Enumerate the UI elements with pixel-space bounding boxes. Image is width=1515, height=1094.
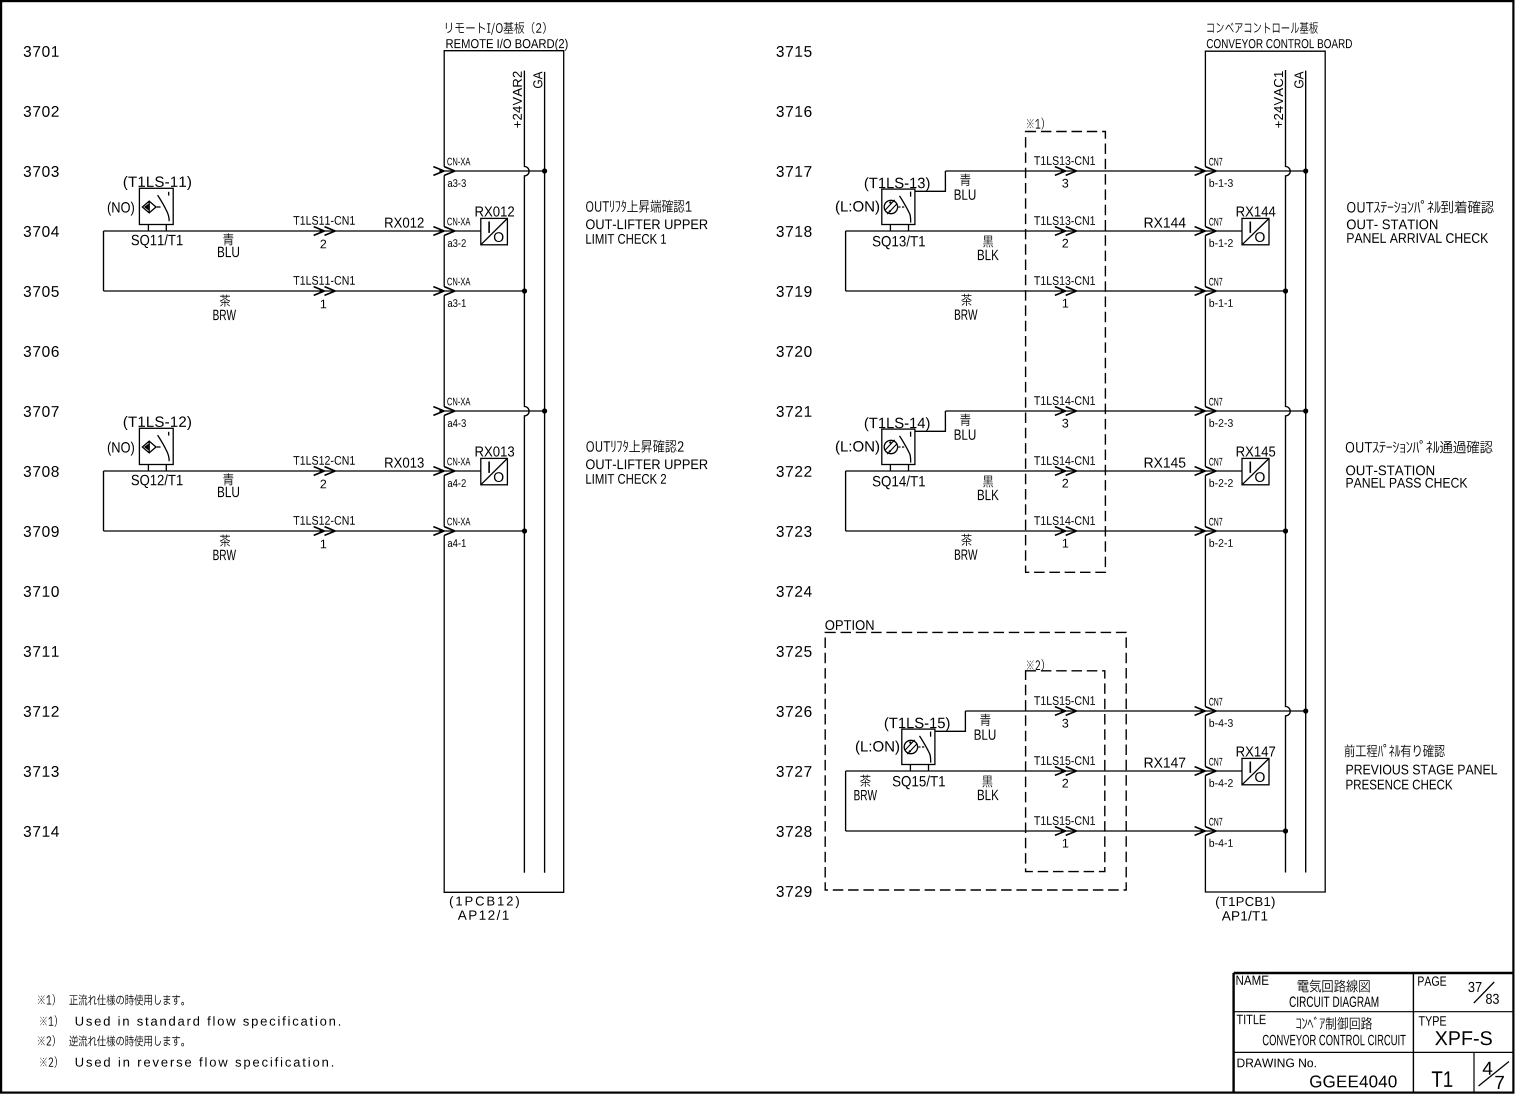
wire color kanji brown pin1 SQ13/T1 (961, 294, 971, 306)
harness label RX013 on wire (385, 458, 424, 468)
wire color kanji brown (pin1 of SQ12/T1) (220, 535, 230, 547)
line number 3718 (777, 226, 812, 237)
connector name T1LS-11-CN1 (pin1) (293, 276, 354, 285)
pin label a3-2 (448, 239, 466, 247)
wire color kanji brown pin1 SQ14/T1 (961, 534, 971, 546)
board edge connector CN7 b-4-1 (1195, 827, 1217, 836)
label (L:ON) of SQ13/T1 (836, 201, 879, 215)
connector name T1LS-15-CN1 (pin3) (1034, 696, 1095, 705)
left board edge connector gaps (white) (443, 167, 445, 536)
I/O point RX145 symbol box (1242, 458, 1269, 484)
right board title Japanese: conveyor control board (1207, 22, 1318, 34)
description JP circuit 2: OUT lifter upper check 2 (586, 440, 683, 453)
I/O box letter O (RX145) (1255, 472, 1265, 482)
right board title English (1207, 39, 1352, 48)
connector label CN7 (b-1-3) (1209, 158, 1222, 166)
line number 3704 (24, 226, 59, 237)
line number 3728 (777, 826, 812, 837)
I/O point RX013 symbol box (481, 458, 508, 484)
wire SQ14/T1 pin3 BLU to board (row 3721) (945, 410, 1205, 412)
dashed box note 2 (reverse flow connectors) (1026, 671, 1105, 872)
page fraction slash (1474, 982, 1494, 1003)
wire inside board a3-2 to I/O RX012 (444, 230, 481, 232)
line number 3702 (24, 106, 59, 117)
wire color BRW pin1 SQ14/T1 (955, 550, 978, 560)
right board AP1/T1 outline (1205, 51, 1325, 892)
wire SQ15/T1 pin2 BLK to board (846, 770, 1206, 772)
reference designator SQ12/T1 (132, 474, 183, 488)
title block label PAGE (1418, 976, 1446, 986)
wire color BRW (pin1 of SQ11/T1) (213, 310, 236, 320)
I/O box letter O (RX144) (1255, 232, 1265, 242)
description EN right 1 line 1 (1347, 219, 1437, 229)
pin number 3 of T1LS-15-CN1 (1062, 719, 1068, 728)
connector label CN-XA (a3-2) (447, 218, 470, 226)
wire inside board b-1-1 to +24VAC1 (1205, 290, 1285, 292)
I/O box letter I (RX147) (1250, 762, 1252, 773)
pin label b-2-1 (1210, 539, 1233, 547)
description EN right 2 line 2 (1347, 478, 1468, 488)
description EN circuit 1 line 1 (586, 219, 708, 229)
pin label a3-3 (448, 179, 466, 187)
line number 3723 (777, 526, 812, 537)
I/O box letter I (RX144) (1250, 222, 1252, 233)
pin number 2 of T1LS-11-CN1 (321, 240, 327, 249)
net +24VAC1 bus line (right board) with hops (1286, 70, 1291, 873)
left board title Japanese: remote I/O board(2) (446, 22, 546, 35)
wire SQ12/T1 pin2 BLU to board (row 3708) (104, 470, 445, 472)
line number 3708 (24, 466, 59, 477)
board edge connector CN-XA a4-1 (433, 527, 455, 536)
board reference (1PCB12) (450, 896, 519, 908)
title block CIRCUIT DIAGRAM (1290, 996, 1379, 1007)
title block divider row2/row3 (1234, 1051, 1514, 1053)
description EN circuit 2 line 2 (586, 474, 666, 484)
I/O point label RX012 (476, 206, 514, 216)
junction dot b-4-3 on GA (1303, 708, 1308, 713)
note 2 text EN (76, 1057, 333, 1069)
net label GA left (rotated) (533, 72, 542, 89)
net +24VAR2 bus line (left board) with hops (524, 71, 529, 873)
pin label b-2-2 (1210, 479, 1233, 487)
connector T1LS-15-CN1 pin2 chevrons (1055, 767, 1077, 776)
net label +24VAC1 (rotated) (1274, 71, 1283, 127)
left board title English (446, 39, 567, 51)
note 2 text JP: used in reverse flow specification (69, 1035, 184, 1046)
reference designator SQ15/T1 (893, 776, 945, 790)
line number 3727 (777, 766, 812, 777)
wire inside board a4-3 to GA (444, 410, 544, 412)
reference designator SQ13/T1 (873, 236, 925, 250)
pin number 2 of T1LS-14-CN1 (1063, 479, 1069, 488)
wire color kanji brown pin1 SQ15/T1 (860, 775, 870, 787)
I/O point label RX147 (1237, 747, 1275, 757)
wire inside board b-1-2 to I/O RX144 (1205, 230, 1242, 232)
pin number 2 of T1LS-15-CN1 (1063, 779, 1069, 788)
wire color BLU (pin2 of SQ12/T1) (218, 487, 239, 497)
title block row3 sub divider (1473, 1052, 1475, 1092)
connector name T1LS-13-CN1 (pin3) (1034, 156, 1095, 165)
sheet fraction slash (1479, 1062, 1510, 1087)
reference designator SQ11/T1 (132, 234, 183, 248)
note 1 marker JP (38, 994, 55, 1005)
connector name T1LS-13-CN1 (pin1) (1034, 276, 1095, 285)
board edge connector CN-XA a4-2 (433, 467, 455, 476)
connector label CN7 (b-4-3) (1209, 698, 1222, 706)
board edge connector CN7 b-4-3 (1195, 707, 1217, 716)
line number 3713 (24, 766, 59, 777)
title block JP name: electric circuit diagram (1298, 980, 1370, 993)
I/O box letter O (RX012) (494, 232, 504, 242)
pin number 3 of T1LS-13-CN1 (1062, 179, 1068, 188)
wire SQ12/T1 left vertical (103, 471, 105, 531)
note marker 1 above dashed box (1027, 118, 1044, 130)
I/O point label RX145 (1237, 447, 1276, 457)
wire SQ12/T1 pin1 BRW to board (row 3709) (104, 530, 445, 532)
connector name T1LS-14-CN1 (pin3) (1034, 396, 1095, 405)
wire SQ15/T1 pin3 BLU to board (row 3726) (965, 710, 1205, 712)
board edge connector CN-XA a3-2 (433, 227, 455, 236)
title block CONVEYOR CONTROL CIRCUIT (1263, 1035, 1406, 1046)
line number 3710 (24, 586, 59, 597)
board edge connector CN-XA a4-3 (433, 407, 455, 416)
I/O point RX012 symbol box (481, 218, 508, 244)
line number 3701 (24, 46, 59, 57)
connector T1LS-15-CN1 pin1 chevrons (1055, 827, 1077, 836)
line number 3725 (777, 646, 812, 657)
connector label CN-XA (a4-2) (447, 458, 470, 466)
connector label CN7 (b-2-1) (1209, 518, 1222, 526)
net GA bus line (left board) (544, 72, 546, 873)
limit switch SQ14/T1 (T1LS-14) sensor symbol box (882, 429, 915, 471)
board edge connector CN7 b-2-3 (1195, 407, 1217, 416)
limit switch SQ12/T1 (T1LS-12) proximity symbol box (139, 428, 173, 471)
harness label RX145 on wire (1145, 458, 1186, 468)
junction dot a3-1 on +24VAR2 (522, 288, 527, 293)
description EN right 3 line 1 (1347, 765, 1498, 775)
wire SQ14/T1 left vertical (845, 471, 847, 531)
I/O point label RX144 (1237, 207, 1276, 217)
line number 3721 (777, 406, 812, 417)
note 1 text EN (76, 1016, 340, 1028)
connector label CN-XA (a4-1) (447, 518, 470, 526)
connector name T1LS-14-CN1 (pin2) (1034, 456, 1095, 465)
wire color kanji blue pin3 SQ15/T1 (980, 714, 990, 726)
junction dot b-1-1 on +24VAC1 (1283, 288, 1288, 293)
wire SQ15/T1 left vertical (845, 771, 847, 831)
connector label CN-XA (a3-1) (447, 278, 470, 286)
line number 3719 (777, 286, 812, 297)
wire SQ11/T1 left vertical (103, 231, 105, 291)
board edge connector CN7 b-4-2 (1195, 767, 1217, 776)
board reference AP12/1 (458, 910, 509, 920)
connector name T1LS-15-CN1 (pin2) (1034, 756, 1095, 765)
description JP right 1: OUT station panel arrival check (1347, 200, 1494, 213)
connector T1LS-11-CN1 pin2 chevrons (314, 227, 336, 236)
note 1 text JP: used in standard flow specification (69, 994, 184, 1005)
note 2 marker EN line (40, 1056, 57, 1067)
pin label a3-1 (448, 299, 466, 307)
connector T1LS-13-CN1 pin2 chevrons (1055, 227, 1077, 236)
wire inside board a4-1 to +24VAR2 (444, 530, 524, 532)
pin label b-1-3 (1210, 179, 1233, 187)
label OPTION (825, 620, 873, 630)
connector T1LS-12-CN1 pin2 chevrons (314, 467, 336, 476)
title block label TYPE (1419, 1016, 1446, 1025)
junction dot a3-3 on GA (542, 168, 547, 173)
wire inside board b-4-2 to I/O RX147 (1205, 770, 1242, 772)
connector T1LS-15-CN1 pin3 chevrons (1055, 707, 1077, 716)
pin number 1 of T1LS-15-CN1 (1063, 839, 1068, 848)
description EN circuit 2 line 1 (586, 459, 708, 469)
wire inside board b-2-1 to +24VAC1 (1205, 530, 1285, 532)
harness label RX012 on wire (385, 218, 423, 228)
wire inside board b-2-2 to I/O RX145 (1205, 470, 1242, 472)
wire color BRW pin1 SQ15/T1 (854, 790, 877, 800)
board edge connector CN-XA a3-1 (433, 287, 455, 296)
connector label CN7 (b-2-2) (1209, 458, 1222, 466)
wire SQ15/T1 BLU jog from box to pin3 row (935, 711, 966, 731)
title block outline (thick) (1234, 973, 1513, 1092)
wire inside board b-4-3 to GA (1205, 710, 1305, 712)
net GA bus line (right board) (1305, 71, 1307, 873)
wire color kanji blue pin3 SQ13/T1 (960, 174, 970, 186)
board edge connector CN7 b-1-2 (1195, 227, 1217, 236)
wire SQ13/T1 pin2 BLK to board (846, 230, 1206, 232)
connector T1LS-14-CN1 pin3 chevrons (1055, 407, 1077, 416)
label (T1LS-15) (885, 717, 950, 731)
board edge connector CN7 b-2-1 (1195, 527, 1217, 536)
pin label b-4-3 (1210, 719, 1233, 727)
I/O box letter O (RX147) (1255, 772, 1265, 782)
title block label NAME (1237, 976, 1269, 985)
wire inside board a3-1 to +24VAR2 (444, 290, 524, 292)
I/O point RX147 symbol box (1242, 758, 1269, 784)
title block label TITLE (1237, 1015, 1266, 1024)
line number 3724 (777, 586, 812, 597)
wire color kanji brown (pin1 of SQ11/T1) (220, 295, 230, 307)
label (T1LS-14) (865, 417, 930, 431)
reference designator SQ14/T1 (873, 476, 925, 490)
label (NO) contact type of SQ12/T1 (108, 442, 134, 456)
wire color BLU (pin2 of SQ11/T1) (218, 247, 239, 257)
wire inside board a4-2 to I/O RX013 (444, 470, 481, 472)
limit switch SQ11/T1 (T1LS-11) proximity symbol box (139, 188, 173, 231)
pin label a4-3 (448, 419, 466, 427)
wire color BRW (pin1 of SQ12/T1) (213, 550, 236, 560)
wire color kanji black pin2 SQ13/T1 (983, 236, 993, 248)
wire SQ13/T1 pin1 BRW to board (846, 290, 1206, 292)
wire inside board b-1-3 to GA (1205, 170, 1305, 172)
title block sheet T1 (1432, 1071, 1453, 1087)
board edge connector CN7 b-2-2 (1195, 467, 1217, 476)
wire color BRW pin1 SQ13/T1 (955, 310, 978, 320)
wire color kanji blue (pin2 of SQ12/T1) (223, 473, 233, 485)
pin number 2 of T1LS-13-CN1 (1063, 239, 1069, 248)
wire color BLK pin2 SQ15/T1 (978, 790, 999, 800)
I/O box letter I (RX145) (1250, 462, 1252, 473)
connector label CN7 (b-1-2) (1209, 218, 1222, 226)
I/O box letter O (RX013) (494, 472, 504, 482)
line number 3712 (24, 706, 59, 717)
junction dot b-1-3 on GA (1303, 168, 1308, 173)
wire SQ13/T1 pin3 BLU to board (row 3717) (945, 170, 1205, 172)
page fraction numerator 37 (1468, 982, 1481, 992)
harness label RX144 on wire (1145, 218, 1186, 228)
line number 3715 (777, 46, 812, 57)
description EN circuit 1 line 2 (586, 234, 666, 244)
title block divider row1/row2 (1234, 1011, 1514, 1013)
line number 3714 (24, 826, 59, 837)
line number 3722 (777, 466, 812, 477)
right board edge connector gaps (white) (1204, 167, 1206, 836)
pin number 3 of T1LS-14-CN1 (1062, 419, 1068, 428)
line number 3707 (24, 406, 59, 417)
label (L:ON) of SQ15/T1 (856, 741, 899, 755)
pin label b-4-1 (1210, 839, 1233, 847)
I/O point label RX013 (476, 446, 514, 456)
wire color BLK pin2 SQ14/T1 (978, 490, 999, 500)
title block drawing number GGEE4040 (1310, 1075, 1397, 1087)
junction dot b-2-3 on GA (1303, 408, 1308, 413)
description JP right 3: previous stage panel presence check (1345, 744, 1445, 757)
I/O point RX144 symbol box (1242, 218, 1269, 244)
wire color kanji blue pin3 SQ14/T1 (960, 414, 970, 426)
connector label CN7 (b-2-3) (1209, 398, 1222, 406)
note 1 marker EN line (40, 1015, 57, 1026)
junction dot a4-3 on GA (542, 408, 547, 413)
line number 3716 (777, 106, 812, 117)
line number 3706 (24, 346, 59, 357)
pin number 1 of T1LS-14-CN1 (1063, 539, 1068, 548)
wire SQ11/T1 pin2 BLU to board (row 3704) (104, 230, 445, 232)
wire color BLU pin3 SQ15/T1 (975, 730, 996, 740)
wire SQ14/T1 pin1 BRW to board (846, 530, 1206, 532)
wire inside board a3-3 to GA (444, 170, 544, 172)
connector T1LS-14-CN1 pin2 chevrons (1055, 467, 1077, 476)
pin label b-1-2 (1210, 239, 1233, 247)
wire color BLU pin3 SQ13/T1 (955, 190, 976, 200)
connector label CN-XA (a4-3) (447, 398, 470, 406)
label (T1LS-13) (865, 177, 930, 191)
line number 3720 (777, 346, 812, 357)
connector label CN7 (b-4-2) (1209, 758, 1222, 766)
connector name T1LS-14-CN1 (pin1) (1034, 516, 1095, 525)
description EN right 1 line 2 (1347, 233, 1488, 243)
connector T1LS-12-CN1 pin1 chevrons (314, 527, 336, 536)
wire color kanji black pin2 SQ15/T1 (982, 776, 992, 788)
line number 3709 (24, 526, 59, 537)
label (L:ON) of SQ14/T1 (836, 441, 879, 455)
limit switch SQ13/T1 (T1LS-13) sensor symbol box (882, 189, 915, 231)
title block vertical divider (1412, 973, 1414, 1092)
connector T1LS-13-CN1 pin3 chevrons (1055, 167, 1077, 176)
connector T1LS-13-CN1 pin1 chevrons (1055, 287, 1077, 296)
line number 3726 (777, 706, 812, 717)
board edge connector CN7 b-1-1 (1195, 287, 1217, 296)
wire color kanji blue (pin2 of SQ11/T1) (223, 233, 233, 245)
connector name T1LS-12-CN1 (pin1) (293, 516, 354, 525)
junction dot a4-1 on +24VAR2 (522, 528, 527, 533)
board edge connector CN-XA a3-3 (433, 167, 455, 176)
connector name T1LS-15-CN1 (pin1) (1034, 816, 1095, 825)
connector name T1LS-11-CN1 (pin2) (293, 216, 354, 225)
junction dot b-2-1 on +24VAC1 (1283, 528, 1288, 533)
description JP right 2: OUT station panel pass check (1346, 440, 1493, 453)
connector label CN7 (b-1-1) (1209, 278, 1222, 286)
connector name T1LS-12-CN1 (pin2) (293, 456, 354, 465)
board reference AP1/T1 (1222, 911, 1268, 921)
wire SQ14/T1 pin2 BLK to board (846, 470, 1206, 472)
connector label CN7 (b-4-1) (1209, 818, 1222, 826)
wire SQ11/T1 pin1 BRW to board (row 3705) (104, 290, 445, 292)
description EN right 2 line 1 (1346, 465, 1434, 475)
page fraction denominator 83 (1486, 994, 1499, 1004)
line number 3711 (24, 646, 59, 657)
title block type XPF-S (1435, 1031, 1492, 1045)
wire SQ13/T1 BLU jog from box to pin3 row (915, 171, 946, 191)
line number 3703 (24, 166, 59, 177)
label (T1LS-12) (124, 416, 191, 430)
junction dot b-4-1 on +24VAC1 (1283, 828, 1288, 833)
description JP circuit 1: OUT lifter upper-end check 1 (586, 200, 691, 213)
dashed box note 1 (standard flow connectors) (1026, 132, 1106, 573)
pin number 1 of T1LS-11-CN1 (321, 300, 326, 309)
pin label b-1-1 (1210, 299, 1233, 307)
harness label RX147 on wire (1145, 758, 1186, 768)
pin number 1 of T1LS-13-CN1 (1063, 299, 1068, 308)
limit switch SQ15/T1 (T1LS-15) sensor symbol box (902, 729, 935, 771)
net label GA right (rotated) (1294, 72, 1303, 89)
sheet fraction numerator 4 (1483, 1062, 1493, 1075)
left board AP12/1 outline (444, 51, 564, 893)
pin label b-4-2 (1210, 779, 1233, 787)
pin number 2 of T1LS-12-CN1 (321, 480, 327, 489)
pin label b-2-3 (1210, 419, 1233, 427)
sheet fraction denominator 7 (1495, 1076, 1504, 1089)
wire color BLK pin2 SQ13/T1 (978, 250, 999, 260)
net label +24VAR2 (rotated) (513, 72, 522, 128)
connector label CN-XA (a3-3) (447, 158, 470, 166)
wire SQ14/T1 BLU jog from box to pin3 row (915, 411, 946, 431)
wire color BLU pin3 SQ14/T1 (955, 430, 976, 440)
board edge connector CN7 b-1-3 (1195, 167, 1217, 176)
note marker 2 above dashed box (1027, 659, 1044, 671)
pin label a4-1 (448, 539, 466, 547)
title block JP title: conveyor control circuit (1296, 1017, 1372, 1030)
connector T1LS-14-CN1 pin1 chevrons (1055, 527, 1077, 536)
note 2 marker JP (38, 1035, 55, 1046)
connector T1LS-11-CN1 pin1 chevrons (314, 287, 336, 296)
wire color kanji black pin2 SQ14/T1 (983, 476, 993, 488)
title block label DRAWING No. (1238, 1059, 1316, 1068)
wire inside board b-2-3 to GA (1205, 410, 1305, 412)
description EN right 3 line 2 (1346, 780, 1452, 790)
wire inside board b-4-1 to +24VAC1 (1205, 830, 1285, 832)
wire SQ15/T1 pin1 BRW to board (846, 830, 1206, 832)
line number 3705 (24, 286, 59, 297)
pin number 1 of T1LS-12-CN1 (321, 540, 326, 549)
line number 3717 (777, 166, 812, 177)
pin label a4-2 (448, 479, 466, 487)
dashed box OPTION (825, 632, 1126, 890)
board reference (T1PCB1) (1216, 897, 1275, 909)
label (T1LS-11) (124, 176, 191, 190)
wire SQ13/T1 left vertical (845, 231, 847, 291)
label (NO) contact type of SQ11/T1 (108, 202, 134, 216)
line number 3729 (777, 886, 812, 897)
I/O box letter I (RX012) (488, 222, 490, 233)
